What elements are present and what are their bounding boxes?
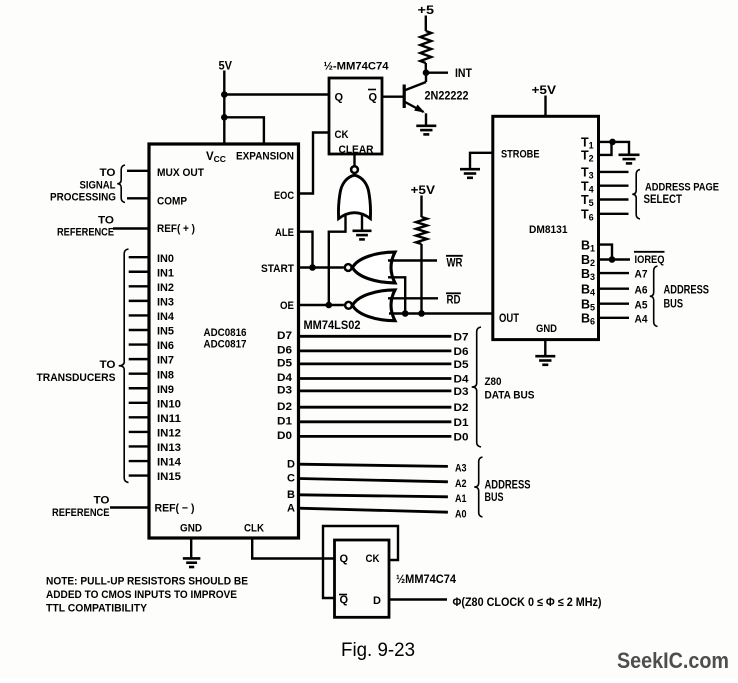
wire REF(-) stub — [110, 506, 149, 508]
wires IN0-IN15 stubs — [129, 256, 149, 258]
svg-text:CLK: CLK — [244, 523, 264, 535]
svg-text:IN10: IN10 — [157, 398, 181, 410]
wire OE net — [299, 304, 344, 306]
svg-text:D: D — [287, 458, 295, 470]
svg-text:ALE: ALE — [275, 227, 294, 239]
svg-text:CK: CK — [366, 553, 380, 565]
wire R1 to collector node — [425, 63, 427, 73]
node junction B1-B2 — [609, 256, 616, 263]
flip-flop U4 body — [335, 540, 390, 617]
svg-text:EOC: EOC — [274, 190, 294, 202]
svg-text:TRANSDUCERS: TRANSDUCERS — [37, 372, 116, 384]
svg-text:D3: D3 — [277, 385, 292, 397]
svg-text:IN13: IN13 — [157, 442, 181, 454]
NOR gate U5c body — [338, 175, 370, 218]
wire OUT net — [389, 312, 493, 314]
wire B5/A5 stub — [599, 303, 630, 305]
svg-text:A: A — [287, 502, 295, 514]
wire T4 stub — [599, 184, 629, 186]
svg-text:Q: Q — [340, 553, 349, 565]
svg-text:GND: GND — [536, 323, 557, 335]
svg-text:D5: D5 — [454, 359, 469, 371]
svg-text:D4: D4 — [454, 374, 470, 386]
wire T6 stub — [599, 213, 629, 215]
resistor R1 — [420, 31, 431, 63]
svg-text:IN2: IN2 — [157, 282, 174, 294]
svg-text:IN1: IN1 — [157, 267, 174, 279]
node junction R2-OUT — [418, 310, 425, 317]
wire U2 CLEAR to NOR bubble — [353, 154, 355, 166]
svg-text:NOTE: PULL-UP RESISTORS SHOULD: NOTE: PULL-UP RESISTORS SHOULD BE — [46, 575, 248, 587]
svg-text:TO: TO — [100, 359, 116, 371]
svg-text:A2: A2 — [455, 478, 467, 490]
svg-text:D5: D5 — [277, 358, 292, 370]
wire EOC to U2 CK — [299, 133, 330, 194]
wire B1 to B2 net — [599, 245, 613, 260]
svg-text:Φ(Z80 CLOCK 0 ≤ Φ ≤ 2 MHz): Φ(Z80 CLOCK 0 ≤ Φ ≤ 2 MHz) — [453, 595, 602, 609]
wire WR input — [388, 259, 437, 261]
svg-text:SELECT: SELECT — [644, 194, 683, 206]
wire B4/A6 stub — [599, 288, 630, 290]
svg-text:SeekIC.com: SeekIC.com — [617, 648, 729, 673]
svg-text:D7: D7 — [277, 330, 292, 342]
wire START net — [299, 266, 344, 268]
wire +5V to DM8131 — [544, 96, 546, 117]
svg-text:D: D — [373, 595, 381, 607]
wire U4 D to clock — [389, 598, 447, 600]
wire REF(+) stub — [113, 227, 149, 229]
svg-text:Q: Q — [335, 92, 344, 104]
svg-text:MUX OUT: MUX OUT — [157, 167, 204, 179]
svg-text:REFERENCE: REFERENCE — [52, 507, 110, 519]
svg-text:+5V: +5V — [532, 83, 557, 97]
wire T2 to T1 — [599, 142, 612, 155]
ground at STROBE — [460, 168, 480, 171]
resistor R2 — [416, 217, 427, 244]
svg-text:IN3: IN3 — [157, 296, 174, 308]
wire MUX OUT stub — [127, 170, 149, 172]
NOR gate U5a bubble — [345, 264, 352, 271]
svg-text:A7: A7 — [635, 269, 648, 281]
svg-text:CLEAR: CLEAR — [339, 144, 374, 156]
svg-text:D6: D6 — [454, 346, 469, 358]
flip-flop U2 body — [329, 78, 382, 154]
svg-text:IN14: IN14 — [157, 457, 182, 469]
wire B3/A7 stub — [599, 272, 630, 274]
brace address-bus-low group — [474, 457, 482, 517]
svg-text:ADDRESS: ADDRESS — [664, 284, 710, 296]
svg-text:IN7: IN7 — [157, 355, 174, 367]
wires data bus D7-D0 — [299, 335, 452, 338]
wire U5a lower input to OUT net — [388, 277, 405, 313]
svg-text:D1: D1 — [454, 417, 469, 429]
svg-text:ADDED TO CMOS INPUTS TO IMPROV: ADDED TO CMOS INPUTS TO IMPROVE — [46, 589, 237, 601]
svg-text:IN15: IN15 — [157, 471, 181, 483]
svg-text:BUS: BUS — [664, 298, 684, 310]
svg-text:RD: RD — [447, 295, 461, 307]
svg-text:MM74LS02: MM74LS02 — [304, 320, 361, 332]
svg-text:TO: TO — [98, 215, 114, 227]
svg-text:B: B — [287, 489, 295, 501]
wire B2 IOREQ net — [599, 258, 631, 260]
brace address-bus-high group — [650, 266, 658, 327]
node junction T1-T2 — [609, 139, 616, 146]
svg-text:A4: A4 — [635, 313, 649, 325]
svg-text:D7: D7 — [454, 331, 469, 343]
svg-text:D0: D0 — [454, 431, 469, 443]
svg-text:IN0: IN0 — [157, 253, 174, 265]
svg-text:D4: D4 — [277, 372, 293, 384]
NOR gate U5c bubble — [351, 166, 358, 173]
svg-text:IN9: IN9 — [157, 384, 174, 396]
svg-text:DATA BUS: DATA BUS — [485, 390, 535, 402]
svg-text:COMP: COMP — [157, 196, 187, 208]
wire U5c right input to ground — [361, 214, 363, 231]
node junction U5a-OUT — [402, 310, 409, 317]
node junction 5V-expansion — [221, 114, 228, 121]
svg-text:C: C — [287, 473, 295, 485]
wire ALE stub — [299, 232, 313, 268]
svg-text:CK: CK — [335, 129, 349, 141]
svg-text:Q: Q — [369, 92, 378, 104]
svg-text:D2: D2 — [454, 402, 469, 414]
svg-text:Z80: Z80 — [485, 376, 502, 388]
wire STROBE to ground — [470, 153, 493, 169]
svg-text:REF( − ): REF( − ) — [155, 503, 195, 515]
brace transducers group — [119, 249, 129, 483]
svg-text:2N22222: 2N22222 — [425, 91, 469, 103]
svg-text:Fig. 9-23: Fig. 9-23 — [341, 639, 415, 661]
svg-text:5V: 5V — [219, 58, 233, 72]
svg-text:ADDRESS: ADDRESS — [485, 479, 531, 491]
ground below U5c — [353, 230, 372, 233]
NOR gate U5b bubble — [345, 302, 352, 309]
ground below Q1 emitter — [416, 125, 436, 128]
svg-text:TO: TO — [94, 495, 110, 507]
brace signal-processing group — [117, 165, 125, 203]
svg-text:SIGNAL: SIGNAL — [80, 179, 116, 191]
ground at U1 GND — [190, 538, 192, 558]
svg-text:BUS: BUS — [485, 492, 504, 504]
svg-text:D2: D2 — [277, 401, 292, 413]
wire INT — [426, 71, 448, 73]
svg-text:PROCESSING: PROCESSING — [50, 191, 116, 203]
node junction INT — [423, 69, 430, 76]
wire +5V stub to R2 — [420, 196, 422, 218]
wire 5V to U2 Q input — [224, 93, 329, 95]
svg-text:DM8131: DM8131 — [529, 224, 568, 236]
wire CLK to U4 Q — [252, 538, 334, 559]
svg-text:D6: D6 — [277, 345, 292, 357]
svg-text:GND: GND — [180, 523, 202, 535]
svg-text:IN6: IN6 — [157, 340, 174, 352]
svg-text:TO: TO — [100, 167, 116, 179]
svg-text:OUT: OUT — [499, 313, 519, 325]
transistor Q1 2N22222 — [403, 85, 406, 109]
svg-text:A5: A5 — [635, 299, 648, 311]
wires address bus A3-A0 — [299, 464, 448, 466]
svg-text:A6: A6 — [635, 284, 648, 296]
wire R2 to OUT net — [420, 244, 422, 314]
svg-text:ADDRESS PAGE: ADDRESS PAGE — [645, 182, 719, 194]
svg-text:ADC0817: ADC0817 — [204, 339, 247, 351]
svg-text:+5: +5 — [418, 3, 435, 17]
svg-text:IN5: IN5 — [157, 326, 174, 338]
svg-text:REF( + ): REF( + ) — [157, 223, 195, 235]
svg-text:A0: A0 — [455, 509, 467, 521]
brace address-page-select group — [632, 170, 640, 220]
wire T3 stub — [599, 171, 629, 173]
svg-text:INT: INT — [455, 68, 472, 80]
NOR gate U5b body — [353, 290, 396, 321]
svg-text:WR: WR — [447, 258, 464, 270]
IC U1 ADC0816/ADC0817 body — [149, 144, 299, 538]
svg-text:IN11: IN11 — [157, 413, 181, 425]
NOR gate U5a body — [353, 252, 396, 283]
svg-text:START: START — [261, 263, 294, 275]
svg-text:D0: D0 — [277, 430, 292, 442]
wire +5 stub — [425, 16, 427, 32]
svg-text:ADC0816: ADC0816 — [204, 327, 247, 339]
svg-text:A3: A3 — [455, 463, 467, 475]
wire COMP stub — [127, 197, 149, 199]
wire U4 CK to Qbar loop — [323, 526, 398, 598]
svg-text:IOREQ: IOREQ — [635, 254, 665, 266]
svg-text:OE: OE — [280, 300, 294, 312]
wire T1 to ground — [599, 142, 630, 155]
svg-text:D1: D1 — [277, 415, 292, 427]
node junction OE-clear — [326, 302, 333, 309]
svg-text:+5V: +5V — [411, 183, 436, 197]
brace data bus group — [472, 327, 481, 447]
svg-text:IN4: IN4 — [157, 311, 175, 323]
ground below U3 GND — [544, 340, 546, 356]
wire 5V to VCC pin — [223, 71, 225, 145]
svg-text:EXPANSION: EXPANSION — [236, 151, 294, 163]
wire 5V to EXPANSION pin — [224, 117, 264, 144]
svg-text:½MM74C74: ½MM74C74 — [396, 574, 457, 586]
IC U3 DM8131 body — [493, 116, 599, 339]
wire U5c left input to OE net — [329, 214, 346, 306]
svg-text:IN8: IN8 — [157, 369, 174, 381]
wire B6/A4 stub — [599, 317, 630, 319]
svg-text:REFERENCE: REFERENCE — [57, 227, 114, 239]
svg-text:D3: D3 — [454, 386, 469, 398]
svg-text:A1: A1 — [455, 493, 467, 505]
wire T5 stub — [599, 198, 629, 200]
node junction ALE-START — [309, 264, 316, 271]
svg-text:Q: Q — [340, 594, 349, 606]
svg-text:TTL COMPATIBILITY: TTL COMPATIBILITY — [46, 602, 148, 614]
svg-text:IN12: IN12 — [157, 428, 181, 440]
svg-text:½-MM74C74: ½-MM74C74 — [324, 60, 390, 72]
node junction 5V-Q — [221, 91, 228, 98]
svg-text:STROBE: STROBE — [501, 149, 540, 161]
ground at T1/T2 — [619, 154, 640, 157]
wire RD input — [388, 297, 438, 299]
